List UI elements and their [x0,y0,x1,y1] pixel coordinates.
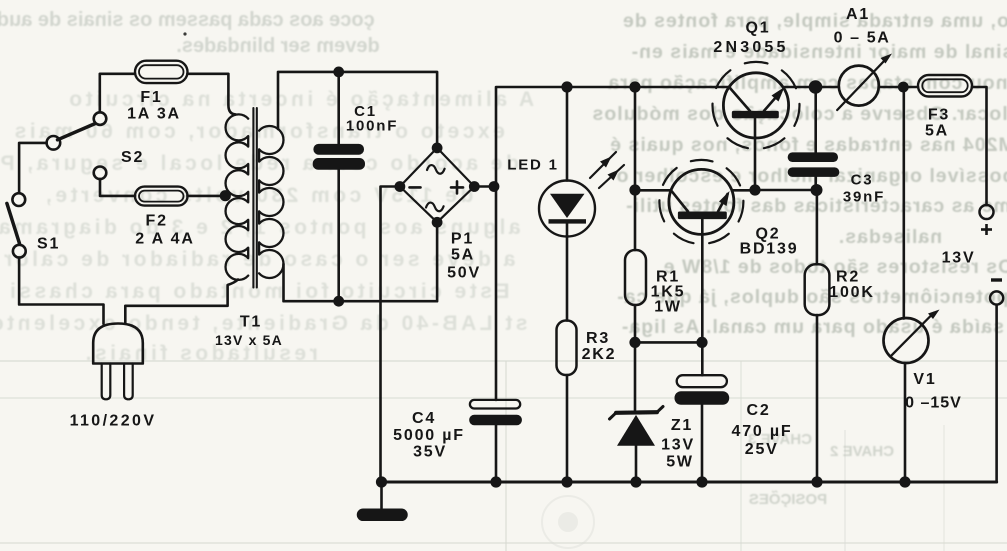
svg-text:sinal de maior intensidade e m: sinal de maior intensidade e mais en- [631,41,1007,63]
svg-text:2K2: 2K2 [582,346,617,363]
node C3 rail junction [809,80,823,94]
node R1 top / Q2 collector node [629,184,640,195]
label F3 value [925,107,950,140]
svg-text:Z1: Z1 [671,417,693,434]
label R3 value [582,330,617,363]
svg-text:Este circuito foi montado para: Este circuito foi montado para chassi [7,280,510,303]
resistor R2 [805,264,830,315]
wire S1 to mains line [19,258,103,324]
wire Q1 base node to R2 node [755,189,816,192]
label R1 value [651,269,686,316]
label V1 range [905,371,962,412]
svg-text:13V x 5A: 13V x 5A [215,332,283,348]
node Q1 base node [749,184,760,195]
wire secondary bottom to bridge [284,227,438,301]
ground symbol [363,482,402,515]
wire F3 to output plus [972,87,987,205]
capacitor C2 [675,375,730,405]
capacitor C3 [788,152,840,177]
wire Q2 collector link [635,189,671,192]
fuse F1 [135,61,188,83]
svg-text:çoce aos cada passem os sinais: çoce aos cada passem os sinais de audi [0,9,375,31]
wire Q1 emitter to A1 [783,86,839,89]
switch S2 [47,112,107,179]
svg-text:F2: F2 [146,213,168,230]
ammeter A1 [837,54,892,111]
output terminal minus [990,291,1003,304]
label Z1 value [661,417,695,471]
node LED top junction [561,81,572,92]
svg-text:da saída é usado para um canal: da saída é usado para um canal. As liga- [621,316,1007,338]
svg-text:13V: 13V [661,437,695,454]
svg-text:F1: F1 [140,89,162,106]
label C3 value [843,172,885,206]
label A1 range [834,6,891,47]
svg-text:A1: A1 [846,6,870,23]
LED1 [539,152,624,237]
node V1 rail junction [898,82,909,93]
wire zener lead top [634,342,637,410]
wire R2 to ground rail [816,315,819,482]
wire F1 to transformer primary top [188,74,236,115]
svg-text:no, uma entrada simple, para f: no, uma entrada simple, para fontes de [622,10,1007,32]
wire Q1 base lead [754,118,757,190]
label Q1 value [713,20,788,57]
wire bridge plus to main rail [474,185,496,188]
label Q2 value [740,226,799,258]
node R3 rail junction [561,476,572,487]
transformer T1 primary winding [226,114,249,279]
label C2 value [732,402,793,458]
node ground junction [376,476,387,487]
wire S2 top throw to F1 [100,74,135,113]
label C1 value [346,103,398,135]
switch S1 [7,193,26,257]
BLEED-THROUGH BACKGROUND (decorative, not labelled individually) [0,9,1007,365]
svg-text:alguns aos pontos 1, 2 e 3 do: alguns aos pontos 1, 2 e 3 do diagrama [0,216,521,239]
wire S2 lower throw to F2 [100,179,135,196]
wire zener to ground rail [635,446,638,482]
svg-text:BD139: BD139 [740,241,799,258]
wire V1 top lead [902,87,905,319]
svg-text:exceto o transformador, com 60: exceto o transformador, com 60 mais [11,120,505,143]
wire C2 bottom lead [701,405,704,482]
svg-text:1A 3A: 1A 3A [127,106,181,123]
svg-text:50V: 50V [447,265,481,282]
transformer T1 core [253,108,256,288]
svg-text:5A: 5A [451,247,475,264]
wire F2 to transformer tap [188,195,224,198]
svg-text:V1: V1 [913,371,936,388]
wire C1 bottom lead [337,170,340,301]
wire R1 bottom [634,305,637,342]
voltmeter V1 [884,310,940,364]
ground rail [381,480,997,483]
node C2 rail junction [696,476,707,487]
node Z1 rail junction [630,476,641,487]
wire minus terminal to ground rail [995,305,998,482]
svg-text:CHAVE 2: CHAVE 2 [830,443,894,460]
svg-text:Q1: Q1 [746,20,771,37]
capacitor C1 [313,144,365,170]
fuse F2 [135,187,188,206]
label output minus [991,278,1002,281]
wire Q2 emitter to Q1 base node [732,189,755,192]
svg-text:470 µF: 470 µF [732,423,793,440]
svg-text:5000 µF: 5000 µF [393,427,465,444]
svg-text:110/220V: 110/220V [70,413,157,430]
svg-text:P1: P1 [451,231,474,248]
svg-text:5A: 5A [925,123,949,140]
wire bridge minus to ground rail [381,187,400,483]
node C2 top junction [696,337,707,348]
svg-text:0 –15V: 0 –15V [905,395,962,412]
label C4 value [393,410,465,461]
transistor Q1 [713,62,800,149]
svg-text:R3: R3 [586,330,610,347]
capacitor C4 [469,400,522,425]
node C4 rail junction [490,476,501,487]
label P1 value [447,231,481,282]
svg-text:39nF: 39nF [843,189,885,206]
wire unregulated rail vertical [496,87,729,400]
svg-text:POSIÇÕES: POSIÇÕES [749,490,827,508]
label output plus [981,224,992,235]
label T1 value [215,314,283,349]
svg-text:13V: 13V [942,250,976,267]
wire C3 bottom lead [814,177,817,190]
node R2 rail junction [811,476,822,487]
svg-text:2 A 4A: 2 A 4A [135,231,194,248]
wire A1 to F3 [879,86,918,89]
svg-text:F3: F3 [928,107,950,124]
wire secondary top to bridge [278,72,437,145]
node transformer tap [220,190,231,201]
svg-text:0 – 5A: 0 – 5A [834,30,891,47]
svg-text:R2: R2 [836,269,860,286]
svg-text:S2: S2 [121,149,144,166]
node C1 bottom junction [333,296,344,307]
node R2 top node [811,184,823,196]
transistor Q2 [659,160,743,244]
svg-text:5W: 5W [666,454,694,471]
mains plug [93,324,143,400]
svg-text:C2: C2 [746,402,770,419]
svg-text:LED 1: LED 1 [507,157,559,174]
wire R3 to ground rail [566,375,569,482]
wire C1 top lead [337,72,340,145]
svg-text:T1: T1 [240,314,262,331]
svg-text:C4: C4 [412,410,436,427]
resistor R3 [557,321,577,376]
wire reference node to C2 column [635,341,702,344]
transformer T1 secondary winding [259,126,283,278]
svg-text:S1: S1 [37,236,60,253]
wire S2 common to S1 [19,143,46,193]
wire LED to R3 [566,224,569,321]
wire C4 bottom lead [495,425,498,482]
fuse F3 [918,75,972,97]
wire R1 column upper [634,87,637,250]
wire LED top lead [566,87,569,181]
node C1 top junction [333,67,344,78]
wire R2 top [816,190,819,264]
label R2 value [829,269,874,302]
wire C3 top lead [814,87,817,152]
svg-text:100nF: 100nF [346,118,398,135]
node V1 rail junction bottom [899,476,910,487]
resistor R1 [625,250,646,305]
svg-text:25V: 25V [745,441,779,458]
wire plug to transformer primary bottom [125,280,238,324]
label F1 value [127,89,181,123]
wire V1 bottom lead [904,363,907,482]
svg-text:35V: 35V [413,444,447,461]
svg-text:100K: 100K [829,284,874,301]
svg-text:nalisedas.: nalisedas. [838,226,942,248]
node zener reference node [629,337,640,348]
svg-text:1W: 1W [654,299,682,316]
zener diode Z1 [610,407,664,446]
node R1 rail junction [629,81,640,92]
wire Q2 base lead [701,219,704,375]
bridge rectifier P1 [395,143,480,228]
svg-text:C3: C3 [851,172,874,189]
node bridge plus junction [489,181,500,192]
label F2 value [135,213,194,248]
svg-text:2N3055: 2N3055 [713,39,788,56]
svg-text:devem ser blindades.: devem ser blindades. [176,35,379,57]
output terminal plus [980,205,994,219]
